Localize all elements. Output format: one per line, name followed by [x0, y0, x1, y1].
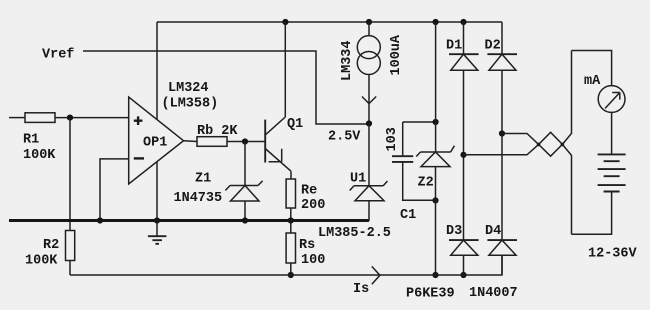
- svg-text:D2: D2: [485, 39, 501, 54]
- wire crossover upper right to meter: [562, 51, 571, 145]
- resistor R1: [9, 113, 129, 123]
- node junction dot D3 on Is wire: [460, 272, 466, 278]
- wire op-amp V+ pin from rail: [156, 22, 158, 120]
- svg-text:Rs: Rs: [299, 238, 315, 253]
- svg-text:D4: D4: [485, 224, 501, 239]
- node junction dot Q1 collector on rail: [282, 19, 288, 25]
- node junction dot Z1 on bus: [242, 217, 248, 223]
- wire Vref net to 2.5V node: [83, 51, 369, 124]
- svg-text:Rb 2K: Rb 2K: [197, 124, 238, 139]
- svg-text:D3: D3: [446, 224, 462, 239]
- capacitor C1 labels: [385, 127, 416, 223]
- wire top positive rail: [157, 21, 502, 23]
- svg-text:1N4735: 1N4735: [174, 191, 223, 206]
- current source LM334 label: [340, 40, 355, 81]
- node junction dot R1/R2/+input: [67, 115, 73, 121]
- svg-text:LM334: LM334: [340, 40, 355, 81]
- svg-text:100: 100: [301, 253, 325, 268]
- current source LM334: [357, 22, 380, 124]
- current Is label: [353, 282, 369, 297]
- svg-text:mA: mA: [584, 74, 601, 89]
- diode bridge part labels: [406, 286, 518, 302]
- current direction arrow Is: [372, 266, 380, 284]
- transistor Q1: [265, 22, 291, 179]
- diode D3: [449, 240, 479, 275]
- diode D3 label: [446, 224, 462, 239]
- svg-text:R2: R2: [43, 238, 59, 253]
- reference U1 labels: [318, 172, 391, 242]
- diode D1: [449, 22, 479, 240]
- svg-text:100K: 100K: [23, 148, 56, 163]
- wire op-amp V- pin to bus: [156, 162, 158, 221]
- wire meter loop top: [572, 51, 612, 86]
- op-amp minus input symbol: [134, 157, 144, 159]
- svg-text:LM385-2.5: LM385-2.5: [318, 226, 391, 241]
- reference diode U1 LM385-2.5: [350, 124, 388, 222]
- svg-text:Is: Is: [353, 282, 369, 297]
- node junction dot D1 on rail: [460, 19, 466, 25]
- svg-text:200: 200: [301, 198, 325, 213]
- wire op-amp output to Rb: [184, 140, 198, 143]
- ground symbol: [148, 221, 167, 244]
- node 2.5V label: [328, 130, 361, 145]
- resistor Re labels: [301, 184, 325, 214]
- node junction dot inverting input on bus: [97, 217, 103, 223]
- transient suppressor Z2 P6KE39: [416, 22, 454, 275]
- svg-text:LM324: LM324: [168, 81, 209, 96]
- wire Rb node down to Z1: [244, 142, 246, 186]
- resistor Rb label: [197, 124, 238, 139]
- op-amp OP1 label: [143, 136, 167, 151]
- svg-text:Re: Re: [301, 184, 317, 199]
- resistor R2 value label: [25, 238, 59, 269]
- svg-text:1N4007: 1N4007: [469, 286, 518, 301]
- battery 12-36V: [572, 154, 626, 234]
- transistor Q1 label: [287, 117, 303, 132]
- node junction dot C1 top / Z2: [433, 119, 439, 125]
- meter mA label: [584, 74, 601, 89]
- resistor R1 value label: [23, 133, 56, 164]
- svg-text:D1: D1: [446, 39, 462, 54]
- svg-text:Z1: Z1: [195, 172, 211, 187]
- svg-text:Vref: Vref: [42, 48, 74, 63]
- ground bus thick line: [9, 219, 369, 222]
- svg-text:12-36V: 12-36V: [588, 247, 638, 262]
- resistor Rs: [286, 221, 295, 276]
- diode D4: [487, 240, 517, 275]
- diode D4 label: [485, 224, 501, 239]
- zener diode Z1: [225, 181, 262, 221]
- resistor Re: [286, 179, 295, 221]
- node junction dot Rs on Is wire: [288, 272, 294, 278]
- node junction dot Rb/Z1/base: [242, 138, 248, 144]
- node junction dot Z2 branch on rail: [433, 19, 439, 25]
- wire crossover lower right to battery: [562, 144, 571, 234]
- node junction dot 2.5V node: [366, 120, 372, 126]
- svg-text:R1: R1: [23, 133, 39, 148]
- svg-text:100uA: 100uA: [389, 34, 404, 75]
- svg-text:P6KE39: P6KE39: [406, 287, 455, 302]
- diode D1 label: [446, 39, 462, 54]
- zener Z2 label: [418, 176, 434, 191]
- resistor Rs labels: [299, 238, 325, 268]
- wire op-amp inverting input: [100, 159, 129, 221]
- wire R1 node down to R2 (crosses ground bus): [69, 118, 71, 231]
- op-amp part number label LM324 (LM358): [162, 81, 219, 112]
- svg-text:(LM358): (LM358): [162, 97, 219, 112]
- diode D2: [487, 22, 517, 240]
- svg-text:2.5V: 2.5V: [328, 130, 361, 145]
- crossover diamond: [537, 132, 564, 156]
- svg-text:Q1: Q1: [287, 117, 303, 132]
- svg-text:100K: 100K: [25, 254, 58, 269]
- svg-text:Z2: Z2: [418, 176, 434, 191]
- wire crossover upper left: [502, 134, 539, 145]
- battery voltage label: [588, 247, 638, 262]
- meter mA: [598, 86, 625, 113]
- node junction dot C1 bottom / Z2: [432, 197, 438, 203]
- node junction dot D2/D4 crossover tap: [499, 130, 505, 136]
- wire Is bottom return: [70, 255, 502, 275]
- svg-text:103: 103: [385, 127, 400, 151]
- node junction dot LM334 on rail: [366, 19, 372, 25]
- op-amp plus input symbol: [134, 116, 143, 125]
- wire crossover lower left: [464, 144, 539, 154]
- node Vref label: [42, 48, 74, 63]
- diode D2 label: [485, 39, 501, 54]
- svg-text:C1: C1: [400, 208, 416, 223]
- svg-text:U1: U1: [350, 172, 366, 187]
- capacitor C1: [392, 122, 436, 200]
- node junction dot D1/D3 crossover tap: [460, 152, 466, 158]
- node junction dot Z2 on Is wire: [432, 272, 438, 278]
- svg-text:OP1: OP1: [143, 136, 167, 151]
- zener Z1 labels: [174, 172, 223, 207]
- resistor Rb 2K: [197, 137, 265, 147]
- current source 100uA label: [389, 34, 404, 75]
- node junction dot V- / ground on bus: [154, 217, 160, 223]
- resistor R2: [66, 231, 75, 276]
- op-amp U OP1 triangle: [129, 97, 184, 184]
- node junction dot Re/Rs on bus: [288, 217, 294, 223]
- wire meter to battery: [611, 112, 613, 154]
